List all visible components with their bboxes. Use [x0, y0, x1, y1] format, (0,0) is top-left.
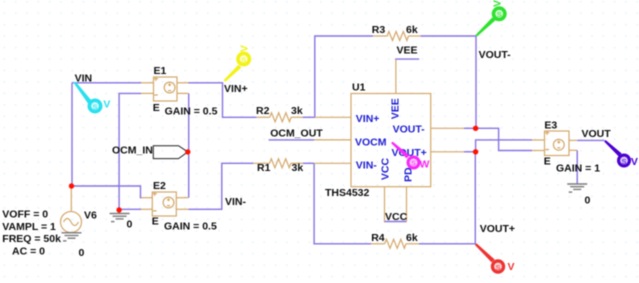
- svg-text:FREQ = 50k: FREQ = 50k: [2, 233, 61, 245]
- dependent source E3: [532, 131, 577, 156]
- svg-text:E: E: [544, 156, 551, 168]
- svg-text:VIN-: VIN-: [356, 160, 378, 172]
- svg-text:VOCM: VOCM: [355, 136, 387, 148]
- resistor R1: [253, 159, 303, 168]
- svg-text:R2: R2: [256, 105, 270, 117]
- junction dot ground node: [116, 207, 121, 212]
- svg-text:E1: E1: [154, 65, 167, 77]
- svg-text:E3: E3: [544, 120, 557, 132]
- wire E1 output+ to VIN+ corner down to R2: [188, 83, 256, 118]
- svg-text:S: S: [92, 102, 97, 111]
- svg-text:U1: U1: [352, 82, 366, 94]
- wire E1 output- down to E2 output+ (OCM_IN net): [188, 93, 190, 197]
- svg-text:E: E: [153, 102, 160, 114]
- svg-text:GAIN = 1: GAIN = 1: [556, 163, 600, 175]
- svg-text:VOUT-: VOUT-: [479, 49, 512, 61]
- wire E2 output- to VIN- corner up to R1: [188, 163, 253, 209]
- svg-text:V: V: [631, 156, 638, 168]
- wire OCM_OUT to U1 VOCM pin: [269, 139, 314, 141]
- dependent source E1: [141, 77, 189, 102]
- ground 0 below E3: [567, 184, 587, 192]
- svg-text:V: V: [492, 0, 504, 7]
- svg-text:3k: 3k: [291, 105, 303, 117]
- junction dot OCM_IN port: [185, 149, 190, 154]
- svg-text:S: S: [241, 55, 246, 64]
- wire E3 output+ to VOUT: [577, 139, 604, 141]
- wire VIN- node down to R4: [314, 163, 371, 244]
- wire R2 right to U1 VIN+ node: [303, 116, 315, 118]
- svg-text:0: 0: [585, 194, 591, 206]
- wire VEE label stub: [395, 58, 419, 60]
- svg-text:THS4532: THS4532: [325, 187, 370, 199]
- wire VOUT- net dot1 to E3 lower input: [476, 128, 532, 150]
- svg-text:OCM_IN: OCM_IN: [112, 144, 153, 156]
- wire V6 junction to E2 plus input: [72, 186, 142, 198]
- svg-text:VIN-: VIN-: [225, 196, 247, 208]
- wire U1 VOUT+ pin to dot2: [464, 151, 476, 153]
- resistor R3: [373, 32, 421, 41]
- junction dot VOUT- node: [473, 126, 478, 131]
- junction dot VOUT+ node: [473, 149, 478, 154]
- ground 0 below V6: [62, 233, 82, 241]
- svg-text:0: 0: [127, 219, 133, 231]
- wire E3 output- down to ground: [576, 150, 578, 184]
- svg-text:V: V: [103, 99, 110, 111]
- port OCM_IN: [153, 146, 188, 159]
- svg-text:GAIN = 0.5: GAIN = 0.5: [164, 221, 217, 233]
- svg-text:W: W: [420, 159, 430, 171]
- probe V dark purple (VOUT): [604, 140, 638, 168]
- wire ground node to E2 minus input: [119, 208, 141, 210]
- svg-text:0: 0: [79, 247, 85, 259]
- svg-text:VIN+: VIN+: [224, 83, 248, 95]
- wire R4 right to VOUT+ node: [419, 152, 475, 244]
- wire VIN horizontal: [72, 82, 141, 84]
- wire R3 right to VOUT- node: [421, 36, 476, 128]
- svg-text:R3: R3: [372, 24, 386, 36]
- svg-text:6k: 6k: [406, 232, 418, 244]
- svg-text:V6: V6: [84, 209, 97, 221]
- svg-text:VIN+: VIN+: [356, 113, 380, 125]
- probe V green (VOUT-): [476, 0, 507, 36]
- wire VIN vertical to V6 junction: [71, 83, 73, 186]
- svg-text:VCC: VCC: [385, 211, 408, 223]
- probe W magenta (power PD): [391, 142, 429, 171]
- svg-text:VEE: VEE: [390, 98, 402, 119]
- svg-text:VOFF = 0: VOFF = 0: [2, 209, 48, 221]
- resistor R2: [256, 113, 302, 122]
- source V6: [61, 186, 82, 233]
- op-amp U1 THS4532: [314, 59, 464, 221]
- probe V red (VOUT+): [475, 243, 515, 273]
- svg-text:3k: 3k: [292, 162, 304, 174]
- probe V cyan (VIN): [74, 82, 111, 114]
- wire VIN+ node up to R3: [315, 36, 373, 117]
- svg-text:S: S: [621, 157, 626, 166]
- wire E1 minus input to ground node: [119, 93, 141, 210]
- resistor R4: [371, 239, 419, 248]
- wire R1 right to U1 VIN- node: [303, 162, 314, 164]
- svg-text:VCC: VCC: [379, 158, 391, 181]
- wire VOUT+ net dot2 to E3 upper input: [476, 140, 532, 152]
- svg-text:VEE: VEE: [397, 44, 418, 56]
- svg-text:V: V: [239, 45, 251, 52]
- ground 0 at input common node: [110, 210, 130, 222]
- wire VCC net between U1 bottom pins: [384, 221, 407, 223]
- dependent source E2: [141, 192, 188, 217]
- probe V yellow (VIN+): [224, 45, 252, 82]
- svg-text:V: V: [508, 261, 515, 273]
- svg-text:S: S: [495, 263, 500, 272]
- svg-text:S: S: [411, 159, 416, 168]
- svg-text:VOUT: VOUT: [582, 128, 612, 140]
- svg-text:VIN: VIN: [75, 72, 93, 84]
- svg-text:E: E: [152, 215, 159, 227]
- wire U1 VOUT- pin to dot1: [464, 127, 476, 129]
- svg-text:R1: R1: [257, 162, 271, 174]
- svg-text:AC = 0: AC = 0: [12, 245, 45, 257]
- svg-text:VAMPL = 1: VAMPL = 1: [2, 221, 56, 233]
- svg-text:6k: 6k: [406, 24, 418, 36]
- svg-text:OCM_OUT: OCM_OUT: [270, 128, 323, 140]
- svg-text:GAIN = 0.5: GAIN = 0.5: [165, 106, 218, 118]
- svg-text:VOUT-: VOUT-: [393, 124, 426, 136]
- junction dot V6 node: [69, 183, 74, 188]
- svg-text:R4: R4: [371, 232, 385, 244]
- svg-text:E2: E2: [153, 180, 166, 192]
- svg-text:VOUT+: VOUT+: [480, 223, 515, 235]
- svg-text:S: S: [497, 10, 502, 19]
